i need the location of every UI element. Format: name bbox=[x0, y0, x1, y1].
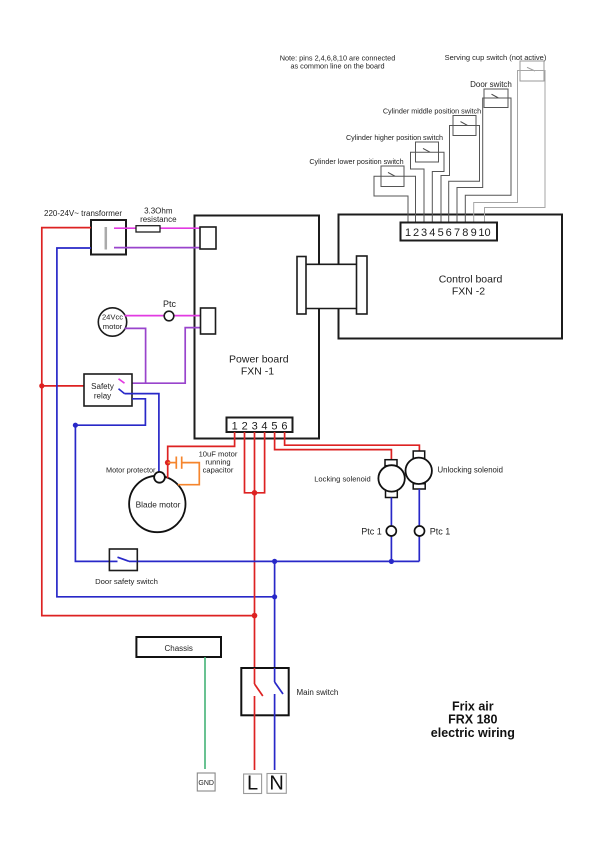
switch S6 door safety switch bbox=[95, 549, 158, 586]
capacitor C1 10uF with orange wiring bbox=[168, 450, 238, 485]
svg-text:1: 1 bbox=[232, 420, 238, 432]
wire blue main switch to N terminal bbox=[274, 715, 276, 770]
svg-text:electric wiring: electric wiring bbox=[431, 726, 515, 740]
switch S4 door switch bbox=[470, 80, 512, 108]
wire green chassis to ground bbox=[204, 657, 206, 769]
svg-text:Cylinder lower position switch: Cylinder lower position switch bbox=[309, 157, 403, 166]
svg-text:220-24V~ transformer: 220-24V~ transformer bbox=[44, 209, 122, 218]
svg-text:10: 10 bbox=[478, 227, 490, 239]
svg-text:3: 3 bbox=[421, 227, 427, 239]
thermistor Ptc 1 unlocking bbox=[415, 526, 451, 536]
svg-text:9: 9 bbox=[471, 227, 477, 239]
terminal box on power board upper bbox=[200, 227, 216, 249]
connector J2 pins 1-10 on control board bbox=[401, 223, 498, 241]
node red junction at relay branch bbox=[39, 383, 44, 388]
wire S4 to pins 7,8 bbox=[457, 98, 511, 223]
svg-text:Ptc 1: Ptc 1 bbox=[361, 527, 382, 537]
wire purple transformer lower to power board bbox=[114, 247, 200, 249]
svg-text:Unlocking solenoid: Unlocking solenoid bbox=[438, 465, 503, 474]
solenoid L1 locking bbox=[314, 460, 405, 498]
node red mains junction bbox=[252, 613, 258, 619]
node blue junction neutral bus at main switch column bbox=[272, 559, 277, 564]
terminal L live bbox=[244, 773, 262, 795]
svg-text:relay: relay bbox=[94, 392, 111, 401]
relay K1 safety relay bbox=[84, 374, 132, 406]
node red capacitor junction bbox=[165, 460, 171, 466]
wire red branch to safety relay bbox=[42, 385, 84, 387]
control board U2 box bbox=[339, 215, 563, 339]
solenoid L2 unlocking bbox=[406, 451, 503, 489]
svg-text:Cylinder middle position switc: Cylinder middle position switch bbox=[383, 107, 481, 116]
wire red pin5 to locking solenoid bbox=[275, 432, 392, 460]
motor M2 blade motor bbox=[129, 476, 185, 532]
wire purple 24Vcc motor loop to safety relay and power board bbox=[125, 328, 201, 384]
switch S3 cylinder middle position switch bbox=[383, 107, 481, 136]
svg-text:resistance: resistance bbox=[140, 215, 177, 224]
node blue junction neutral bus at locking solenoid bbox=[389, 559, 394, 564]
svg-text:Chassis: Chassis bbox=[164, 644, 192, 653]
svg-text:FRX 180: FRX 180 bbox=[448, 712, 497, 726]
svg-text:Locking solenoid: Locking solenoid bbox=[314, 474, 371, 483]
connector J1 pins 1-6 on power board bbox=[227, 418, 293, 433]
breaker motor protector bbox=[106, 465, 165, 482]
svg-text:3: 3 bbox=[252, 420, 258, 432]
svg-text:2: 2 bbox=[413, 227, 419, 239]
svg-text:1: 1 bbox=[405, 227, 411, 239]
svg-text:GND: GND bbox=[198, 780, 214, 787]
chassis box bbox=[136, 637, 221, 657]
svg-text:Control board: Control board bbox=[439, 274, 503, 286]
wire red pin6 to unlocking solenoid bbox=[285, 432, 420, 451]
svg-text:motor: motor bbox=[103, 322, 123, 331]
svg-text:Ptc: Ptc bbox=[163, 299, 177, 309]
svg-text:Safety: Safety bbox=[91, 382, 114, 391]
svg-text:Blade motor: Blade motor bbox=[136, 500, 181, 510]
svg-text:8: 8 bbox=[462, 227, 468, 239]
svg-text:6: 6 bbox=[281, 420, 287, 432]
svg-text:4: 4 bbox=[429, 227, 435, 239]
wire magenta transformer to resistor to power board bbox=[114, 227, 200, 229]
node blue junction left bbox=[73, 423, 78, 428]
wire red mains to transformer and down left side bbox=[42, 228, 255, 616]
note text bbox=[280, 54, 396, 71]
svg-text:capacitor: capacitor bbox=[203, 465, 234, 474]
wire red pins 2,3,4 common bus bbox=[245, 432, 265, 493]
svg-text:Door safety switch: Door safety switch bbox=[95, 577, 158, 586]
thermistor Ptc bbox=[163, 299, 177, 321]
title Frix air FRX 180 electric wiring bbox=[431, 700, 515, 740]
svg-text:FXN -1: FXN -1 bbox=[241, 366, 274, 378]
svg-text:Ptc 1: Ptc 1 bbox=[430, 526, 451, 536]
switch S1 cylinder lower position switch bbox=[309, 157, 404, 187]
svg-text:5: 5 bbox=[438, 227, 444, 239]
svg-text:as common line on the board: as common line on the board bbox=[290, 62, 384, 71]
svg-text:Motor protector: Motor protector bbox=[106, 465, 156, 474]
svg-text:Cylinder higher position switc: Cylinder higher position switch bbox=[346, 133, 443, 142]
wire blue locking solenoid to neutral bus bbox=[390, 498, 392, 562]
wire magenta 24Vcc motor through Ptc to power board bbox=[125, 315, 201, 317]
node blue junction lower neutral line bbox=[272, 594, 277, 599]
svg-text:24Vcc: 24Vcc bbox=[102, 313, 123, 322]
svg-text:4: 4 bbox=[261, 420, 267, 432]
switch S5 serving cup switch (not active) bbox=[445, 53, 547, 81]
terminal N neutral bbox=[267, 773, 286, 795]
wire S3 to pins 5,6 bbox=[441, 126, 480, 223]
transformer T1 220-24V bbox=[44, 209, 126, 254]
wire blue mains to transformer and down left side bbox=[57, 248, 275, 597]
motor M1 24Vcc bbox=[98, 308, 126, 336]
svg-text:Door switch: Door switch bbox=[470, 80, 512, 89]
svg-text:5: 5 bbox=[271, 420, 277, 432]
ground GND terminal bbox=[197, 773, 215, 791]
wire blue relay to motor protector bbox=[125, 394, 159, 472]
wire blue neutral bus horizontal bbox=[137, 560, 419, 562]
svg-text:2: 2 bbox=[242, 420, 248, 432]
wire red main switch to L terminal bbox=[254, 715, 256, 770]
thermistor Ptc 1 locking bbox=[361, 526, 396, 537]
svg-text:6: 6 bbox=[446, 227, 452, 239]
switch S7 main switch bbox=[241, 668, 338, 715]
wire S2 to pins 3,4 bbox=[411, 152, 445, 222]
svg-text:FXN -2: FXN -2 bbox=[452, 286, 485, 298]
resistor R1 3.3Ohm bbox=[136, 207, 177, 233]
wire S5 to pins 9,10 bbox=[474, 71, 545, 223]
svg-text:Power board: Power board bbox=[229, 354, 289, 366]
wire blue neutral down to main switch bbox=[274, 561, 276, 682]
wire blue unlocking solenoid to neutral bus bbox=[418, 489, 420, 561]
svg-text:Main switch: Main switch bbox=[297, 688, 339, 697]
wire red pin3 down to main switch bbox=[254, 432, 256, 684]
ribbon cable between boards bbox=[297, 256, 367, 314]
svg-text:7: 7 bbox=[454, 227, 460, 239]
wire blue relay to door safety switch bbox=[75, 399, 145, 562]
node red bus junction bbox=[252, 490, 258, 496]
svg-text:N: N bbox=[269, 773, 283, 795]
switch S2 cylinder higher position switch bbox=[346, 133, 443, 162]
wire red pin1 to motor and capacitor junction bbox=[168, 432, 235, 478]
wire S1 to pins 1,2 bbox=[374, 176, 416, 222]
power board U1 box bbox=[195, 216, 320, 439]
svg-text:L: L bbox=[247, 773, 258, 795]
terminal box on power board lower bbox=[201, 308, 216, 334]
